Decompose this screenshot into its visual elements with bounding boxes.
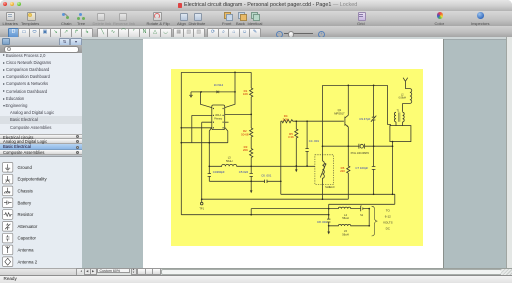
svg-text:L2: L2: [401, 94, 404, 96]
wire vertical x209 from IC: [209, 127, 212, 166]
pin 3 right wire: [225, 121, 229, 123]
tuning arrow: [320, 164, 326, 178]
wire row y194.3: [281, 193, 395, 195]
svg-text:+: +: [360, 205, 362, 208]
red value labels: [241, 89, 345, 173]
svg-text:3.3K: 3.3K: [283, 117, 289, 121]
svg-text:3.3K: 3.3K: [288, 135, 294, 139]
shield inductor L1: [323, 161, 325, 199]
svg-text:T1: T1: [397, 109, 400, 112]
svg-text:S1: S1: [360, 214, 364, 217]
wire vertical x369.2: [368, 209, 370, 226]
pin 2 right wire: [225, 113, 252, 115]
capacitor C5: [250, 174, 253, 182]
svg-text:VOLTS: VOLTS: [383, 220, 393, 224]
svg-text:56uH: 56uH: [226, 159, 232, 163]
dark component labels: [199, 94, 406, 236]
resistor R3: [250, 149, 253, 174]
canvas area: [82, 37, 512, 268]
blue value labels: [213, 83, 371, 224]
ground: [189, 92, 192, 98]
junction dots: [180, 72, 393, 227]
block box below T1: [390, 126, 411, 142]
op-amp U6 box: [212, 105, 225, 130]
svg-text:C4390pF: C4390pF: [213, 170, 225, 174]
antenna: [403, 78, 408, 89]
capacitor C8: [327, 204, 330, 231]
svg-text:TP1: TP1: [199, 208, 204, 211]
inductor L3: [209, 164, 315, 166]
wire top right row y85.4: [323, 84, 388, 86]
trimmer capacitor C9: [371, 85, 376, 166]
svg-text:0.08uH: 0.08uH: [399, 98, 407, 100]
wire vertical x322.5 into shield: [322, 85, 324, 161]
sidebar bottom scroll strip: [0, 268, 82, 276]
resistor R2: [250, 128, 253, 149]
diode D1: [217, 91, 219, 94]
horizontal scroll row: [82, 268, 512, 276]
yellow drawing: [171, 69, 423, 246]
svg-text:1N 914: 1N 914: [214, 83, 224, 87]
svg-text:Primary: Primary: [214, 117, 223, 120]
inductor L5: [329, 224, 370, 225]
svg-text:MPS917: MPS917: [334, 111, 345, 115]
pin 4 left wire: [181, 127, 212, 129]
svg-text:20K: 20K: [243, 148, 248, 152]
IC pin marks: [213, 108, 224, 128]
node chassis arrow below R3: [250, 181, 252, 190]
svg-text:50-68: 50-68: [241, 132, 249, 136]
pin 4 right wire: [225, 127, 228, 142]
svg-text:56uH: 56uH: [342, 216, 348, 220]
wire node row y143: [181, 142, 228, 144]
svg-text:U6A.1: U6A.1: [215, 114, 222, 117]
resistor R4: [281, 120, 344, 123]
wire TP row y199.2: [202, 198, 349, 200]
capacitor C6 series: [265, 180, 267, 183]
wire riser x280.8: [280, 121, 282, 194]
transistor Q1: [345, 85, 348, 148]
capacitor C7: [372, 167, 376, 195]
wire bottom C row: [209, 180, 280, 182]
title bar: [0, 0, 512, 12]
vertical scrollbar: [506, 37, 512, 268]
svg-text:C5 022: C5 022: [239, 170, 249, 174]
library bars: [0, 134, 82, 139]
svg-text:DC: DC: [386, 226, 391, 230]
svg-text:6-12: 6-12: [385, 214, 391, 218]
capacitor C4 390pF: [208, 166, 211, 181]
sidebar: [0, 37, 82, 275]
svg-text:C8 .001: C8 .001: [317, 220, 328, 224]
toolbar icons: [6, 12, 15, 21]
wire outer left vertical: [180, 72, 182, 214]
symbol list: [0, 155, 82, 157]
inductor L4: [251, 207, 361, 208]
wire crystal row y146.2: [323, 145, 393, 147]
svg-text:XTAL 100.00MHz: XTAL 100.00MHz: [351, 152, 370, 155]
svg-text:C4 .001: C4 .001: [309, 139, 320, 143]
resistor R1: [250, 72, 253, 128]
svg-text:C9 47pF: C9 47pF: [359, 117, 370, 121]
wire bottom outer: [181, 214, 328, 216]
wire riser x251 to L4 row: [250, 209, 252, 215]
brace: [372, 206, 378, 236]
wire vertical x392.5: [392, 142, 394, 195]
ground arrow bottom: [327, 232, 330, 235]
status bar: [0, 275, 512, 283]
pin 3 left wire / TP1 vertical: [202, 122, 212, 199]
capacitor C4 .001: [305, 121, 308, 166]
svg-text:TO: TO: [386, 208, 391, 212]
wire vertical to IC pin 1: [200, 92, 211, 108]
battery S1: [361, 206, 370, 211]
wire top horizontal: [181, 71, 251, 73]
resistor R5: [295, 121, 298, 166]
shield dashed box: [315, 155, 334, 185]
chassis arrow below R5: [295, 166, 297, 170]
svg-text:10K: 10K: [243, 92, 248, 96]
wire row y204.3: [329, 194, 395, 204]
wire diode row: [191, 91, 235, 93]
pin 1 right wire: [225, 72, 235, 107]
svg-text:C7 100pF: C7 100pF: [355, 166, 368, 170]
white page: [143, 39, 444, 268]
svg-text:56uH: 56uH: [342, 232, 348, 236]
wire right feed: [388, 85, 391, 125]
main toolbar: [0, 11, 512, 27]
pin 2 left wire: [192, 115, 212, 142]
svg-text:C6 .001: C6 .001: [261, 173, 272, 177]
inductor L2: [403, 89, 412, 112]
second toolbar row: [0, 26, 512, 38]
resistor R6: [347, 149, 350, 200]
transformer T1: [394, 112, 396, 125]
svg-text:220: 220: [340, 169, 345, 173]
crystal XTAL: [359, 144, 365, 149]
terminal TP1: [200, 202, 203, 205]
svg-text:SHIELD: SHIELD: [325, 185, 334, 189]
